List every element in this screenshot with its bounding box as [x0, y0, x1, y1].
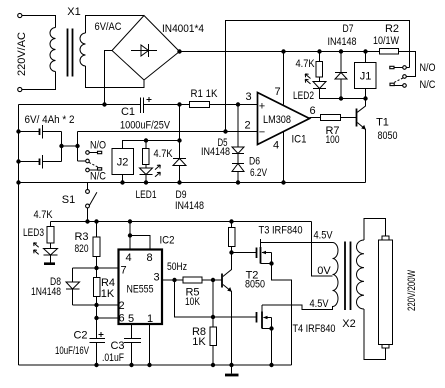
svg-text:7: 7 — [274, 86, 280, 98]
svg-text:T3 IRF840: T3 IRF840 — [259, 225, 303, 237]
svg-text:3: 3 — [245, 91, 251, 103]
svg-text:IN4148: IN4148 — [201, 146, 230, 158]
svg-text:1: 1 — [147, 313, 153, 325]
wire pin1 ground — [149, 324, 151, 365]
wire pin3 to T4 gate — [175, 280, 257, 317]
relay coil J1 — [355, 49, 377, 98]
relay blade dashed — [89, 162, 99, 167]
transistor T2 8050 — [222, 253, 265, 366]
capacitor C3 .01uF — [102, 324, 141, 365]
battery BT1 6V/4Ah cell 1 — [16, 114, 74, 139]
node junction — [236, 102, 240, 106]
svg-text:1K: 1K — [101, 288, 115, 300]
node junction — [269, 326, 273, 330]
capacitor C1 — [120, 97, 171, 132]
svg-text:2: 2 — [118, 300, 124, 312]
node junction — [85, 219, 89, 223]
resistor R4 1K — [94, 268, 116, 305]
relay coil J2 — [112, 141, 146, 183]
relay contact N/C left — [86, 168, 106, 183]
transformer X1 — [50, 6, 86, 77]
node junction — [94, 266, 98, 270]
wire ground rail y182 — [19, 182, 366, 184]
svg-text:6V/AC: 6V/AC — [95, 21, 122, 33]
wire R2 to common contact — [399, 52, 416, 77]
svg-text:NE555: NE555 — [127, 284, 154, 296]
wire ground rail bottom — [19, 364, 292, 366]
wire LED1 to rail — [145, 175, 147, 183]
wire bridge left to DC rail — [105, 51, 113, 105]
svg-text:IN4148: IN4148 — [328, 36, 357, 48]
svg-text:6V/ 4Ah * 2: 6V/ 4Ah * 2 — [25, 114, 75, 126]
svg-text:1K: 1K — [192, 336, 206, 348]
resistor R2 10/1W — [373, 23, 400, 54]
svg-text:4: 4 — [125, 252, 131, 264]
svg-text:+: + — [259, 101, 265, 113]
node junction — [94, 363, 98, 367]
svg-text:10uF/16V: 10uF/16V — [55, 345, 89, 357]
switch S1 — [62, 183, 97, 222]
svg-text:7: 7 — [120, 265, 126, 277]
svg-text:50Hz: 50Hz — [167, 261, 187, 273]
resistor 4.7K (LED3) — [34, 209, 55, 243]
wire — [22, 72, 56, 90]
diode D8 1N4148 — [31, 268, 80, 305]
wire pin3 output — [162, 279, 183, 281]
transformer X2 — [333, 240, 365, 330]
svg-text:220V/AC: 220V/AC — [16, 32, 28, 76]
svg-text:8: 8 — [146, 252, 152, 264]
svg-text:R3: R3 — [74, 231, 88, 243]
svg-text:N/O: N/O — [420, 62, 436, 74]
svg-text:T1: T1 — [376, 117, 389, 129]
resistor R3 820 — [74, 219, 100, 268]
svg-text:D6: D6 — [249, 156, 260, 168]
svg-text:N/C: N/C — [420, 79, 436, 91]
svg-text:LM308: LM308 — [263, 114, 291, 126]
svg-text:8050: 8050 — [245, 279, 265, 291]
ground — [44, 255, 55, 264]
svg-text:220V/200W: 220V/200W — [406, 270, 418, 311]
LED2 — [293, 74, 326, 102]
svg-text:X2: X2 — [342, 318, 355, 330]
wire secondary top — [86, 16, 145, 34]
svg-text:IN4148: IN4148 — [175, 200, 204, 212]
wire J2 top line — [146, 140, 180, 142]
wire top rail battery to relay — [226, 21, 410, 132]
relay common contact right — [403, 75, 407, 79]
svg-text:4: 4 — [273, 140, 279, 152]
svg-text:C2: C2 — [73, 330, 87, 342]
capacitor C2 10uF/16V — [55, 330, 105, 366]
svg-text:4.5V: 4.5V — [314, 230, 334, 242]
svg-text:C3: C3 — [110, 340, 124, 352]
svg-text:6: 6 — [309, 105, 315, 117]
svg-text:10/1W: 10/1W — [373, 35, 400, 47]
battery BT2 cell 2 — [16, 155, 61, 169]
wire DC plus rail — [180, 51, 380, 53]
wire left rail — [18, 105, 20, 366]
op-amp U1 LM308 — [258, 93, 310, 146]
resistor R5 10K — [183, 277, 202, 308]
wire to common contact — [78, 160, 86, 162]
svg-text:100: 100 — [326, 134, 340, 146]
wire T3 gate line — [232, 252, 257, 254]
relay blade dashed — [393, 78, 403, 83]
wire pin7 supply — [283, 52, 285, 105]
svg-text:1000uF/25V: 1000uF/25V — [120, 120, 171, 132]
ground — [225, 365, 239, 375]
LED3 — [23, 227, 58, 255]
wire pin2 line — [73, 304, 119, 306]
diode D5 IN4148 — [201, 105, 244, 159]
svg-text:LED1: LED1 — [136, 189, 157, 201]
svg-text:J1: J1 — [360, 71, 372, 83]
wire pin4 ground — [283, 132, 285, 183]
svg-text:C1: C1 — [121, 106, 135, 118]
node junction — [269, 261, 273, 265]
svg-text:N/C: N/C — [90, 171, 106, 183]
svg-text:N/O: N/O — [90, 140, 106, 152]
svg-text:4.5V: 4.5V — [310, 298, 330, 310]
wire T2 base to gate line — [212, 280, 214, 317]
node junction — [211, 363, 215, 367]
svg-text:J2: J2 — [117, 157, 129, 169]
bridge rectifier IN4001*4 — [112, 16, 204, 81]
node junction — [281, 49, 285, 53]
relay contact N/O right — [390, 62, 436, 74]
svg-text:R2: R2 — [385, 23, 399, 35]
wire pin2 input — [78, 131, 258, 133]
node junction — [120, 180, 124, 184]
svg-text:3: 3 — [153, 272, 159, 284]
svg-text:4.7K: 4.7K — [34, 209, 54, 221]
wire Vcc rail y221 — [51, 221, 312, 223]
svg-text:IN4001*4: IN4001*4 — [162, 23, 204, 35]
svg-text:.01uF: .01uF — [102, 352, 124, 364]
svg-text:D7: D7 — [343, 23, 354, 35]
svg-text:2: 2 — [244, 120, 250, 132]
node junction — [16, 180, 20, 184]
terminal input bottom — [18, 87, 22, 91]
wire X2 secondary to lamp — [364, 219, 386, 241]
wire pin4 pin8 supply — [128, 219, 150, 249]
wire battery junction — [61, 132, 63, 162]
wire T4 drain to X2 — [262, 305, 333, 310]
wire secondary bottom — [86, 66, 145, 88]
node junction — [281, 180, 285, 184]
node junction — [339, 96, 343, 100]
node junction — [129, 363, 133, 367]
wire to pin3 — [210, 104, 258, 106]
resistor R8 1K — [192, 317, 217, 365]
resistor R1 1K — [190, 88, 219, 108]
relay contact N/C right — [390, 79, 436, 91]
svg-text:IC1: IC1 — [292, 134, 307, 146]
node junction — [229, 363, 233, 367]
svg-text:−: − — [259, 127, 265, 139]
wire main rail y104 — [19, 104, 141, 106]
node junction — [363, 96, 367, 100]
wire to relay common — [62, 145, 78, 147]
node junction — [177, 180, 181, 184]
MOSFET T3 IRF840 — [257, 225, 303, 264]
resistor R6 — [229, 219, 236, 252]
diode D9 IN4148 — [173, 105, 204, 213]
svg-text:4.7K: 4.7K — [296, 58, 316, 70]
svg-text:6.2V: 6.2V — [250, 167, 267, 179]
node junction — [236, 180, 240, 184]
wire LED2 bottom rail — [320, 89, 366, 99]
resistor 4.7K (LED1) — [143, 141, 174, 165]
svg-text:10K: 10K — [185, 296, 201, 308]
svg-text:R1 1K: R1 1K — [191, 88, 219, 100]
terminal input top — [18, 13, 22, 17]
node junction — [177, 49, 181, 53]
svg-text:5: 5 — [128, 313, 134, 325]
wire — [22, 16, 56, 28]
resistor R7 100 — [310, 115, 341, 147]
LED1 — [136, 165, 161, 202]
transistor T1 8050 — [341, 99, 398, 183]
IC2 NE555 — [119, 235, 175, 325]
node junction — [102, 102, 106, 106]
svg-text:820: 820 — [75, 243, 89, 255]
wire battery plus riser — [77, 132, 79, 162]
svg-text:T4 IRF840: T4 IRF840 — [293, 323, 336, 335]
wire — [144, 104, 190, 106]
diode D7 IN4148 — [328, 23, 357, 99]
zener D6 6.2V — [232, 154, 267, 183]
lamp 220V/200W — [379, 236, 419, 348]
svg-text:S1: S1 — [62, 194, 75, 206]
wire R5 to T2 base — [202, 279, 222, 281]
wire T4 source down — [271, 318, 273, 366]
node junction — [223, 129, 227, 133]
wire T3 source down — [272, 253, 292, 366]
wire pin6 line — [96, 305, 98, 339]
svg-text:X1: X1 — [67, 6, 80, 18]
svg-text:LED2: LED2 — [293, 90, 314, 102]
MOSFET T4 IRF840 — [257, 305, 336, 335]
node junction — [177, 102, 181, 106]
svg-text:LED3: LED3 — [23, 227, 44, 239]
node junction — [229, 250, 233, 254]
relay contact N/O left — [86, 140, 107, 155]
svg-text:0V: 0V — [317, 265, 331, 277]
svg-text:6: 6 — [118, 313, 124, 325]
svg-text:4.7K: 4.7K — [154, 148, 174, 160]
relay common contact left — [86, 159, 90, 163]
svg-text:IC2: IC2 — [160, 235, 175, 247]
svg-text:1N4148: 1N4148 — [31, 286, 61, 298]
resistor 4.7K (LED2) — [296, 49, 323, 77]
wire T3 drain to X2 — [261, 242, 333, 244]
wire pin7 line — [73, 267, 119, 269]
svg-text:8050: 8050 — [378, 130, 398, 142]
wire X2 centre tap — [312, 222, 333, 277]
